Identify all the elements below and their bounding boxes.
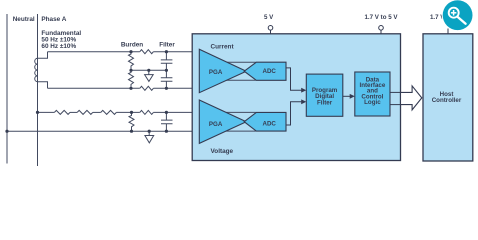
adc ADC2 voltage xyxy=(244,112,286,131)
adc ADC1 current xyxy=(244,62,286,80)
resistor divider lower xyxy=(129,112,134,131)
wire current top xyxy=(48,51,140,53)
wire logic out bottom xyxy=(390,104,401,106)
resistor divider R1 xyxy=(54,110,70,114)
arrowhead filter to logic xyxy=(350,94,355,99)
resistor filter top xyxy=(140,50,154,54)
wire current bottom to PGA xyxy=(153,87,199,89)
wire PGA2-ADC2 top xyxy=(222,111,256,113)
wire ADC1 out xyxy=(286,68,302,90)
ground GND1 xyxy=(145,70,154,81)
wire current bottom xyxy=(48,87,140,89)
ground GND2 xyxy=(145,131,154,143)
wire xyxy=(70,111,77,113)
svg-text:Filter: Filter xyxy=(159,41,175,48)
svg-text:ADC: ADC xyxy=(262,68,276,75)
svg-text:Controller: Controller xyxy=(432,97,462,104)
wire logic out top xyxy=(390,91,401,93)
junction dots xyxy=(5,50,168,133)
wire PGA1-ADC1 bottom xyxy=(222,79,256,81)
block host controller xyxy=(423,34,473,161)
wire xyxy=(116,111,139,113)
svg-text:Logic: Logic xyxy=(364,99,381,106)
svg-text:PGA: PGA xyxy=(209,69,223,76)
node neutral junction xyxy=(5,130,8,133)
block data interface and control logic xyxy=(355,72,390,116)
svg-text:5 V: 5 V xyxy=(264,14,274,21)
resistor burden upper xyxy=(129,52,134,71)
wire voltage divider top xyxy=(38,111,55,113)
svg-text:Phase A: Phase A xyxy=(41,16,66,23)
svg-text:Filter: Filter xyxy=(317,99,333,106)
pin 5 V xyxy=(268,26,273,31)
wire voltage top to PGA xyxy=(153,111,199,113)
node phase A tap xyxy=(36,111,39,114)
svg-text:Voltage: Voltage xyxy=(211,148,234,155)
op-amp PGA2 voltage xyxy=(199,100,246,143)
arrowhead ADC2 to filter xyxy=(301,99,306,104)
svg-text:Burden: Burden xyxy=(121,41,143,48)
node cap top xyxy=(165,50,168,53)
block AFE box xyxy=(192,34,400,161)
node burden top xyxy=(129,50,132,53)
svg-text:Neutral: Neutral xyxy=(13,16,35,23)
resistor divider R3 xyxy=(101,110,117,114)
wire neutral bus bottom xyxy=(7,130,199,132)
pin host supply xyxy=(447,29,449,34)
wire neutral line xyxy=(6,14,8,164)
svg-text:ADC: ADC xyxy=(262,121,276,128)
svg-text:Current: Current xyxy=(211,44,235,51)
svg-text:60 Hz ±10%: 60 Hz ±10% xyxy=(41,43,76,50)
resistor voltage filter xyxy=(140,110,154,114)
icon zoom button xyxy=(442,0,474,31)
wire filter to logic xyxy=(343,95,351,97)
resistor divider R2 xyxy=(77,110,93,114)
wire PGA1-ADC1 top xyxy=(222,61,256,63)
node burden mid xyxy=(129,69,132,72)
wire current top to PGA xyxy=(153,51,199,53)
arrowhead ADC1 to filter xyxy=(301,88,306,93)
node cap mid xyxy=(165,69,168,72)
node divider bottom xyxy=(130,130,133,133)
capacitor C1 xyxy=(161,52,173,71)
capacitor C3 xyxy=(161,112,173,131)
node gnd2 tap xyxy=(148,130,151,133)
inductor coil L1 xyxy=(35,58,38,81)
wire ADC2 out xyxy=(286,102,302,125)
node cap3 top xyxy=(165,111,168,114)
pin 1.7 V to 5 V xyxy=(379,26,384,31)
node divider mid xyxy=(130,111,133,114)
wire middle tap xyxy=(131,69,166,71)
node gnd1 tap xyxy=(147,69,150,72)
svg-text:1.7 V to 5 V: 1.7 V to 5 V xyxy=(364,14,398,21)
wire CT top tap xyxy=(38,52,48,59)
node cap bottom xyxy=(165,87,168,90)
svg-text:PGA: PGA xyxy=(209,121,223,128)
arrow bus to host xyxy=(401,86,422,110)
block program digital filter xyxy=(306,74,343,116)
wire phase A line xyxy=(37,14,39,166)
node burden bottom xyxy=(129,87,132,90)
resistor filter bottom xyxy=(140,86,154,90)
node cap3 bottom xyxy=(165,130,168,133)
wire CT bottom tap xyxy=(38,82,48,89)
capacitor C2 xyxy=(161,70,173,88)
wire PGA2-ADC2 bottom xyxy=(222,130,256,132)
op-amp PGA1 current xyxy=(199,49,246,92)
resistor burden lower xyxy=(129,70,134,88)
wire xyxy=(93,111,101,113)
